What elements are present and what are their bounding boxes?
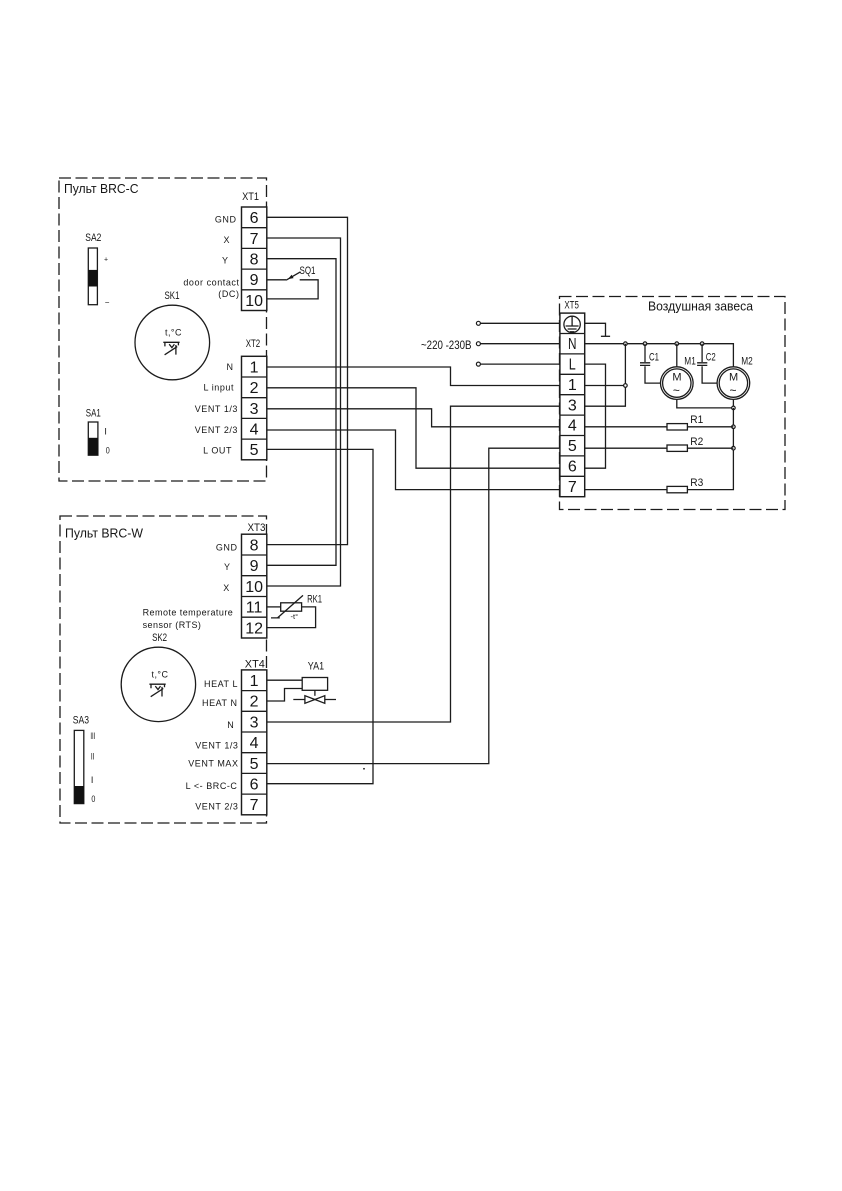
switch SA1 (86, 408, 110, 456)
wire XT2-4 to XT5-7 (267, 430, 560, 490)
svg-text:2: 2 (250, 380, 259, 397)
wire N distribution (585, 344, 734, 367)
svg-text:+: + (104, 257, 108, 264)
svg-text:N: N (227, 720, 234, 730)
svg-text:L <- BRC-C: L <- BRC-C (186, 781, 238, 791)
svg-text:M: M (672, 372, 681, 384)
junction C2 (700, 342, 704, 346)
mains terminal N (476, 342, 480, 346)
svg-text:6: 6 (568, 459, 577, 476)
svg-text:5: 5 (250, 442, 259, 459)
svg-text:XT1: XT1 (242, 191, 259, 203)
svg-text:SA2: SA2 (85, 232, 101, 244)
thermistor RK1 (267, 594, 322, 628)
svg-text:R3: R3 (690, 477, 703, 489)
junction R1 (732, 425, 736, 429)
svg-text:M: M (729, 372, 738, 384)
wire GND bus XT1-6 to XT3-8 (267, 217, 348, 544)
wire N to XT5-3 link (585, 344, 626, 407)
svg-text:SQ1: SQ1 (300, 265, 316, 277)
svg-text:Y: Y (224, 562, 231, 572)
svg-text:L input: L input (203, 383, 234, 393)
svg-text:III: III (90, 731, 95, 741)
svg-text:t,°C: t,°C (165, 328, 182, 338)
limit switch SQ1 (267, 265, 318, 299)
svg-text:R2: R2 (690, 436, 703, 448)
junction N-1 (624, 342, 628, 346)
svg-text:Пульт BRC-C: Пульт BRC-C (64, 181, 139, 196)
box Пульт BRC-C (59, 178, 267, 481)
svg-text:C1: C1 (649, 352, 659, 364)
wire XT5-1 to link (585, 385, 626, 387)
box Пульт BRC-W (60, 516, 267, 823)
wire XT2-3 to XT5-4 (267, 409, 560, 427)
capacitor C2 (697, 344, 717, 383)
svg-text:4: 4 (568, 418, 577, 435)
resistor R2 (585, 436, 734, 452)
capacitor C1 (640, 344, 660, 383)
svg-text:XT4: XT4 (245, 659, 265, 671)
svg-text:SK1: SK1 (165, 290, 180, 302)
junction R2 (732, 446, 736, 450)
svg-text:Y: Y (222, 255, 229, 265)
terminal XT5 (560, 300, 585, 497)
mains terminal PE (476, 321, 480, 325)
svg-text:sensor (RTS): sensor (RTS) (143, 620, 202, 630)
svg-text:8: 8 (250, 252, 259, 269)
svg-text:I: I (104, 427, 107, 437)
svg-text:Пульт BRC-W: Пульт BRC-W (65, 525, 144, 540)
wire XT2-2 to XT5-6 (267, 388, 560, 468)
svg-text:GND: GND (216, 542, 238, 552)
svg-text:~: ~ (730, 384, 737, 398)
svg-text:7: 7 (568, 479, 577, 496)
svg-text:XT2: XT2 (246, 338, 261, 350)
svg-text:door contact: door contact (183, 278, 239, 288)
svg-text:0: 0 (91, 794, 95, 804)
svg-text:~220 -230В: ~220 -230В (421, 338, 472, 352)
switch SA2 (85, 232, 110, 307)
svg-text:1: 1 (250, 673, 259, 690)
svg-text:M1: M1 (684, 356, 696, 368)
svg-text:Remote temperature: Remote temperature (143, 607, 234, 617)
svg-text:X: X (223, 235, 230, 245)
svg-text:HEAT N: HEAT N (202, 698, 237, 708)
motor M1 (661, 344, 696, 400)
svg-text:C2: C2 (706, 352, 716, 364)
wire Y bus XT1-8 to XT3-9 (267, 259, 336, 566)
svg-text:~: ~ (673, 384, 680, 398)
svg-text:10: 10 (245, 293, 263, 310)
svg-text:9: 9 (250, 558, 259, 575)
svg-text:12: 12 (245, 620, 263, 637)
svg-text:VENT 2/3: VENT 2/3 (195, 425, 238, 435)
svg-text:t,°C: t,°C (152, 669, 169, 679)
wire XT4-5 to XT5-5 (267, 448, 560, 763)
svg-text:6: 6 (250, 777, 259, 794)
svg-text:10: 10 (245, 579, 263, 596)
svg-text:GND: GND (215, 214, 237, 224)
svg-text:XT5: XT5 (564, 300, 579, 312)
svg-text:M2: M2 (741, 356, 753, 368)
svg-text:II: II (91, 752, 95, 762)
svg-text:3: 3 (568, 397, 577, 414)
svg-text:4: 4 (250, 422, 259, 439)
svg-text:YA1: YA1 (308, 660, 324, 672)
thermostat SK2 (121, 632, 195, 722)
svg-text:-t°: -t° (291, 612, 299, 621)
terminal XT4 (242, 659, 267, 815)
stray dot (363, 768, 365, 770)
wire XT2-5 to XT4-6 (267, 449, 373, 783)
svg-text:L OUT: L OUT (203, 446, 232, 456)
svg-text:SK2: SK2 (152, 632, 167, 644)
svg-text:7: 7 (250, 797, 259, 814)
wire mains PE to XT5 (480, 322, 560, 324)
wire mains L to XT5 (480, 363, 560, 365)
mains terminal L (476, 362, 480, 366)
terminal XT2 (242, 338, 267, 460)
earth terminal symbol (564, 316, 580, 332)
resistor R3 (585, 477, 704, 493)
solenoid valve YA1 (267, 660, 336, 703)
svg-text:SA1: SA1 (86, 408, 101, 420)
svg-text:9: 9 (250, 272, 259, 289)
svg-text:X: X (223, 583, 230, 593)
svg-text:8: 8 (250, 537, 259, 554)
svg-text:5: 5 (568, 438, 577, 455)
switch SA3 (73, 714, 96, 804)
thermostat SK1 (135, 290, 210, 380)
wire XT4-3 to XT5-3 (267, 406, 560, 722)
svg-text:5: 5 (250, 756, 259, 773)
wire common down to R3 (687, 408, 733, 490)
wire XT2-1 to XT5-1 (267, 367, 560, 386)
wire L to XT5-6 loop (585, 364, 606, 468)
svg-text:N: N (568, 336, 577, 353)
svg-text:−: − (105, 298, 110, 307)
svg-text:1: 1 (250, 359, 259, 376)
svg-text:2: 2 (250, 694, 259, 711)
svg-text:VENT 2/3: VENT 2/3 (195, 801, 238, 811)
svg-text:N: N (226, 362, 233, 372)
svg-text:RK1: RK1 (307, 594, 322, 606)
svg-text:3: 3 (250, 714, 259, 731)
svg-text:VENT MAX: VENT MAX (188, 758, 238, 768)
wire mains N to XT5 (480, 343, 560, 345)
terminal XT3 (242, 522, 267, 638)
ground (601, 335, 610, 337)
svg-text:SA3: SA3 (73, 714, 89, 726)
junction link 1 (624, 384, 628, 388)
svg-text:0: 0 (106, 446, 110, 456)
svg-text:7: 7 (250, 231, 259, 248)
wire X bus XT1-7 to XT3-10 (267, 238, 341, 586)
svg-text:4: 4 (250, 735, 259, 752)
svg-text:1: 1 (568, 377, 577, 394)
junction M1 (675, 342, 679, 346)
svg-text:6: 6 (250, 210, 259, 227)
svg-text:Воздушная завеса: Воздушная завеса (648, 298, 754, 313)
svg-text:HEAT L: HEAT L (204, 679, 238, 689)
box Воздушная завеса (560, 297, 786, 510)
junction C1 (643, 342, 647, 346)
svg-text:L: L (569, 357, 576, 374)
wire M1 M2 common (677, 399, 734, 408)
svg-text:VENT 1/3: VENT 1/3 (195, 740, 238, 750)
svg-text:I: I (91, 775, 94, 785)
svg-text:VENT 1/3: VENT 1/3 (195, 404, 238, 414)
svg-text:R1: R1 (690, 414, 703, 426)
svg-text:(DC): (DC) (218, 289, 239, 299)
junction M bottom (732, 406, 736, 410)
wire PE to ground (585, 323, 606, 336)
terminal XT1 (242, 191, 267, 311)
motor M2 (717, 356, 753, 400)
svg-text:XT3: XT3 (248, 522, 266, 534)
svg-text:11: 11 (246, 600, 263, 617)
resistor R1 (585, 414, 734, 430)
svg-text:3: 3 (250, 401, 259, 418)
